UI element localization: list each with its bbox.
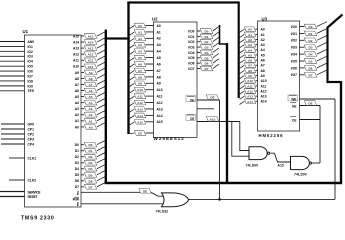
wire ripper A1 from bus B2 [129,32,134,36]
svg-text:I/O0: I/O0 [291,25,297,29]
svg-text:D7: D7 [75,185,79,189]
svg-text:A15: A15 [210,117,216,121]
svg-text:A10: A10 [137,88,143,92]
wire ripper from bus B2 [129,132,134,135]
U1 left pin CP3 [1,138,25,140]
svg-text:D5: D5 [205,56,209,60]
wire ripper D0 to data bus [97,141,105,145]
wire ripper D2 to data bus [213,37,219,41]
U3 left pin A1 [256,33,258,35]
U3 left pin A2 [256,39,258,41]
svg-text:D1: D1 [89,149,93,153]
U1 left pin CP1 [1,128,25,130]
wire ripper A12 from address trunk [240,91,245,94]
wire ripper A15 from bus B2 [129,122,134,126]
U2 left pin A9 [146,82,154,84]
svg-text:A2: A2 [261,38,265,42]
wire ripper D1 to data bus [213,32,219,36]
svg-text:I/O6: I/O6 [188,62,194,66]
svg-text:A14: A14 [137,114,143,118]
svg-text:D3: D3 [309,46,313,50]
svg-text:CLK1: CLK1 [28,156,37,160]
svg-text:A9: A9 [75,71,79,75]
svg-text:D1: D1 [205,35,209,39]
svg-text:D5: D5 [75,173,79,177]
U2 left pin A11 [146,95,154,97]
svg-text:A15: A15 [157,120,163,124]
U2 right pin I/O0 [197,30,201,32]
address bus B1 (vertical trunk from U1) [105,30,107,184]
svg-text:A14: A14 [88,41,94,45]
wire ripper D3 to data bus [97,159,105,163]
svg-text:A11: A11 [247,84,253,88]
U3 left pin A5 [256,54,258,56]
wire ripper A5 from bus B2 [129,58,134,62]
U1 right pin A7 [81,83,84,85]
wire ripper A8 from address trunk [240,70,245,73]
U1 left pin CLK2 [9,179,25,181]
U2 data bus riser [220,25,228,44]
svg-text:A6: A6 [138,62,142,66]
svg-text:A14: A14 [247,100,253,104]
svg-text:I/O2: I/O2 [291,39,297,43]
wire ripper D6 to data bus riser [317,63,327,68]
U2 left pin CE (low) [146,132,154,134]
svg-text:A14: A14 [73,40,79,44]
svg-text:TMS9 2330: TMS9 2330 [21,215,55,221]
U2 left pin A0 [146,25,154,27]
U2 left pin A15 [146,121,154,123]
svg-text:A8: A8 [248,69,252,73]
U1 right pin D4 [81,168,84,170]
svg-text:A7: A7 [261,64,265,68]
RAM U3 [258,21,300,131]
wire ripper A6 to address bus [97,86,105,90]
svg-text:A3: A3 [75,107,79,111]
svg-text:A11: A11 [73,59,79,63]
U2 left pin A7 [146,69,154,71]
U1 right pin A15 [81,35,84,37]
svg-text:I/O3: I/O3 [188,45,194,49]
wire ripper A10 from address trunk [240,81,245,84]
bus link B1 to B2 [105,37,130,39]
svg-text:A0: A0 [138,24,142,28]
wire ripper A8 to address bus [97,74,105,78]
wire ripper A0 from address trunk [240,29,245,32]
wire ripper D1 to data bus [97,147,105,151]
OR gate 74LS32 [162,193,189,207]
wire ripper A2 to address bus [97,111,105,115]
svg-text:A13: A13 [137,107,143,111]
wire NAND2 output to CE [317,162,321,164]
svg-text:A8: A8 [157,75,161,79]
svg-text:A6: A6 [89,89,93,93]
svg-text:74LS00: 74LS00 [246,163,259,167]
svg-text:A3: A3 [138,43,142,47]
svg-text:A2: A2 [138,37,142,41]
svg-text:74LS00: 74LS00 [294,173,307,177]
U3 right pin I/O7 [300,74,305,76]
U1 right pin D1 [81,150,84,152]
svg-text:A14: A14 [261,100,267,104]
wire ripper A0 from bus B2 [129,26,134,30]
wire ripper D0 to data bus riser [317,22,327,27]
wire ripper A4 from address trunk [240,50,245,53]
U2 right pin I/O1 [197,35,201,37]
svg-text:D0: D0 [75,143,79,147]
wire ripper A13 from address trunk [240,96,245,99]
U1 left pin IO3 [0,55,25,57]
wire ripper A14 from address trunk [240,101,245,104]
U1 right pin A9 [81,71,84,73]
wire ripper D5 to data bus riser [317,56,327,61]
U3 left pin A3 [256,44,258,46]
wire ripper A5 to address bus [97,92,105,96]
wire ripper A15 to address bus [97,32,105,36]
U2 right pin I/O7 [197,68,201,70]
svg-text:A7: A7 [138,69,142,73]
svg-text:I/O5: I/O5 [188,56,194,60]
svg-text:A9: A9 [138,82,142,86]
svg-text:A7: A7 [89,83,93,87]
svg-text:D6: D6 [75,179,79,183]
svg-text:CE: CE [292,119,297,123]
U1 right pin A3 [81,108,84,110]
U2 left pin A13 [146,108,154,110]
svg-text:A4: A4 [75,101,79,105]
EPROM U2 [154,22,198,138]
U2 left pin A3 [146,44,154,46]
wire NAND1 output to NAND2 [270,153,290,162]
svg-text:D2: D2 [89,155,93,159]
svg-text:A9: A9 [157,82,161,86]
U1 right pin A0 [81,126,84,128]
svg-text:D4: D4 [75,167,79,171]
svg-text:A11: A11 [88,59,94,63]
svg-text:A10: A10 [261,79,267,83]
svg-text:A5: A5 [75,95,79,99]
svg-text:A8: A8 [261,69,265,73]
svg-text:D6: D6 [309,66,313,70]
svg-text:D0: D0 [205,29,209,33]
svg-text:D6: D6 [205,62,209,66]
svg-text:I/O7: I/O7 [188,67,194,71]
wire ripper A2 from bus B2 [129,38,134,42]
U1 right pin A4 [81,102,84,104]
U2 left pin A6 [146,63,154,65]
wire ripper A12 to address bus [97,50,105,54]
svg-text:A0: A0 [157,24,161,28]
wire ripper A6 from bus B2 [129,64,134,68]
U1 right pin A10 [81,65,84,67]
svg-text:A7: A7 [75,83,79,87]
svg-text:A15: A15 [73,34,79,38]
wire ripper A1 from address trunk [240,34,245,37]
U2 pin WE stub [197,108,214,110]
svg-text:A10: A10 [73,65,79,69]
U1 right pin D5 [81,174,84,176]
U3 right pin I/O3 [300,46,305,48]
U1 right pin D0 [81,144,84,146]
wire ripper D2 to data bus [97,153,105,157]
svg-text:IO1: IO1 [28,45,33,49]
svg-text:U1: U1 [23,29,29,34]
svg-text:A4: A4 [89,101,93,105]
svg-text:D3: D3 [75,161,79,165]
wire ripper A11 from bus B2 [129,96,134,100]
wire ripper A3 from address trunk [240,45,245,48]
svg-text:A5: A5 [157,56,161,60]
svg-text:A4: A4 [261,48,265,52]
U1 right pin A1 [81,120,84,122]
svg-text:A11: A11 [261,84,267,88]
svg-text:A3: A3 [248,43,252,47]
svg-text:I/O2: I/O2 [188,40,194,44]
svg-text:A10: A10 [88,65,94,69]
wire ripper A7 to address bus [97,80,105,84]
svg-text:CLK2: CLK2 [28,178,37,182]
wire ripper D1 to data bus riser [317,29,327,34]
svg-text:D4: D4 [309,53,313,57]
wire ripper A6 from address trunk [240,60,245,63]
U3 right pin I/O4 [300,53,305,55]
wire ripper A13 to address bus [97,44,105,48]
U1 right pin A11 [81,59,84,61]
wire A15 net to NAND1 input A [240,122,249,151]
U1 left pin GP0 [1,123,25,125]
svg-text:A10: A10 [247,79,253,83]
wire ripper A13 from bus B2 [129,109,134,113]
svg-text:D7: D7 [89,185,93,189]
svg-text:I/O3: I/O3 [291,46,297,50]
wire ripper A12 from bus B2 [129,103,134,107]
svg-text:A12: A12 [73,53,79,57]
U3 right pin I/O6 [300,67,305,69]
svg-text:A0: A0 [75,125,79,129]
U3 right pin I/O2 [300,39,305,41]
wire ripper D3 to data bus [213,43,219,47]
U2 left pin A5 [146,57,154,59]
svg-text:A15: A15 [278,164,284,168]
U3 left pin A8 [256,69,258,71]
U2 left pin A14 [146,114,154,116]
svg-text:A13: A13 [88,47,94,51]
svg-text:A2: A2 [157,37,161,41]
svg-text:D2: D2 [75,155,79,159]
wire ripper D0 to data bus [213,27,219,31]
wire ripper D2 to data bus riser [317,36,327,41]
wire ripper A4 to address bus [97,98,105,102]
wire ripper A14 to address bus [97,38,105,42]
svg-text:A6: A6 [261,59,265,63]
svg-text:A6: A6 [157,62,161,66]
U3 data bus drop (right bold trunk) [340,81,342,183]
wire ripper A2 from address trunk [240,40,245,43]
svg-text:D0: D0 [309,25,313,29]
U1 left pin CLK1 [9,157,25,159]
svg-text:A12: A12 [247,89,253,93]
U3 data bus riser [328,15,343,83]
svg-text:A0: A0 [89,125,93,129]
U2 left pin A10 [146,89,154,91]
U1 left pin IO8 [0,80,25,82]
svg-text:A1: A1 [75,119,79,123]
U3 left pin A4 [256,49,258,51]
svg-text:D3: D3 [205,46,209,50]
svg-text:SERVICE: SERVICE [28,190,41,194]
svg-text:A6: A6 [248,59,252,63]
svg-text:A3: A3 [89,107,93,111]
svg-text:R/W: R/W [73,197,80,201]
svg-text:A12: A12 [88,53,94,57]
wire ripper A3 from bus B2 [129,45,134,49]
U3 left pin A6 [256,59,258,61]
wire ripper A9 to address bus [97,68,105,72]
svg-text:A0: A0 [248,28,252,32]
svg-text:D7: D7 [309,73,313,77]
svg-text:A3: A3 [157,43,161,47]
U1 right pin A6 [81,90,84,92]
wire ripper A1 to address bus [97,117,105,121]
U1 left pin CP4 [1,143,25,145]
svg-text:A4: A4 [138,50,142,54]
wire ripper D7 to data bus riser [317,70,327,75]
svg-text:RESET: RESET [28,195,38,199]
svg-text:A12: A12 [157,101,163,105]
svg-text:W29EE512: W29EE512 [154,136,185,141]
wire WE down to OR gate output [334,99,336,199]
U3 left pin A9 [256,75,258,77]
svg-text:OE: OE [210,96,214,100]
wire ripper D4 to data bus [97,165,105,169]
svg-text:OE: OE [292,105,298,109]
wire ripper A10 from bus B2 [129,90,134,94]
wire R/W into OR gate [151,192,166,196]
svg-text:A5: A5 [248,53,252,57]
svg-text:CP3: CP3 [28,137,35,141]
U1 left pin IO5 [0,65,25,67]
svg-text:A1: A1 [89,119,93,123]
wire ripper D6 to data bus [213,59,219,63]
svg-text:A11: A11 [157,95,163,99]
wire OE down to OR gate output (RD signal) [219,100,221,199]
U2 right pin I/O5 [197,57,201,59]
svg-text:I/O7: I/O7 [291,73,297,77]
svg-text:D5: D5 [309,59,313,63]
svg-text:A13: A13 [247,95,253,99]
U1 left pin SERVICE [0,191,25,193]
wire ripper A9 from bus B2 [129,83,134,87]
U1 right pin D6 [81,180,84,182]
U2 right pin I/O6 [197,62,201,64]
svg-text:A8: A8 [138,75,142,79]
svg-text:IO2: IO2 [28,50,33,54]
svg-text:A9: A9 [248,74,252,78]
svg-text:A5: A5 [261,53,265,57]
svg-text:A1: A1 [248,33,252,37]
U2 left pin A12 [146,102,154,104]
U1 left pin TES [0,90,25,92]
svg-text:A2: A2 [248,38,252,42]
svg-text:A13: A13 [261,95,267,99]
U1 left pin IO7 [0,75,25,77]
svg-text:A10: A10 [157,88,163,92]
U1 left pin IO6 [0,70,25,72]
svg-text:D2: D2 [205,40,209,44]
svg-text:IO3: IO3 [28,55,33,59]
wire ripper A5 from address trunk [240,55,245,58]
U2 left pin A4 [146,50,154,52]
wire ripper A10 to address bus [97,62,105,66]
svg-text:A4: A4 [248,48,252,52]
wire ripper D6 to data bus [97,177,105,181]
svg-text:A11: A11 [137,95,143,99]
U3 left pin A11 [256,85,258,87]
svg-text:A6: A6 [75,89,79,93]
svg-text:D4: D4 [89,167,93,171]
U1 left pin IO2 [0,50,25,52]
svg-text:A5: A5 [89,95,93,99]
U2 right pin I/O2 [197,41,201,43]
U1 right pin A5 [81,96,84,98]
svg-text:D7: D7 [205,67,209,71]
wire ripper A11 to address bus [97,56,105,60]
svg-text:GP0: GP0 [28,122,35,126]
svg-text:74LS32: 74LS32 [156,210,169,214]
svg-text:A13: A13 [73,47,79,51]
svg-text:A12: A12 [261,89,267,93]
wire ripper A11 from address trunk [240,86,245,89]
U1 right pin D3 [81,162,84,164]
U1 left pin CP2 [1,133,25,135]
svg-text:D5: D5 [89,173,93,177]
svg-text:TES: TES [28,89,35,93]
U1 right pin A8 [81,77,84,79]
svg-text:IO9: IO9 [28,84,33,88]
U1 left pin IO4 [0,60,25,62]
svg-text:A7: A7 [157,69,161,73]
svg-text:D0: D0 [89,143,93,147]
svg-text:I/O4: I/O4 [188,51,194,55]
U2 right pin I/O3 [197,46,201,48]
NAND gate 74LS00 #2 [291,156,310,169]
bus top horizontal trunk [127,1,238,3]
svg-text:A14: A14 [157,114,163,118]
svg-text:IO6: IO6 [28,69,33,73]
wire ripper A3 to address bus [97,105,105,109]
U1 right pin A2 [81,114,84,116]
svg-text:AN0: AN0 [28,40,35,44]
wire OR output to right [189,198,335,200]
svg-text:IO7: IO7 [28,74,33,78]
wire ripper D5 to data bus [213,53,219,57]
address bus trunk down to U3 [238,1,240,98]
svg-text:A0: A0 [261,28,265,32]
svg-text:A2: A2 [89,113,93,117]
svg-text:D1: D1 [309,32,313,36]
wire ripper A8 from bus B2 [129,77,134,81]
U1 right pin A14 [81,41,84,43]
wire NAND2 input stub [287,161,291,163]
MCU U1 [25,35,82,207]
wire ripper D4 to data bus [213,48,219,52]
svg-text:IO8: IO8 [28,79,33,83]
wire ripper D5 to data bus [97,171,105,175]
wire ripper A7 from address trunk [240,65,245,68]
wire ripper D4 to data bus riser [317,49,327,54]
wire CE/OE tie down to NAND2 output [319,106,321,164]
svg-text:A9: A9 [261,74,265,78]
